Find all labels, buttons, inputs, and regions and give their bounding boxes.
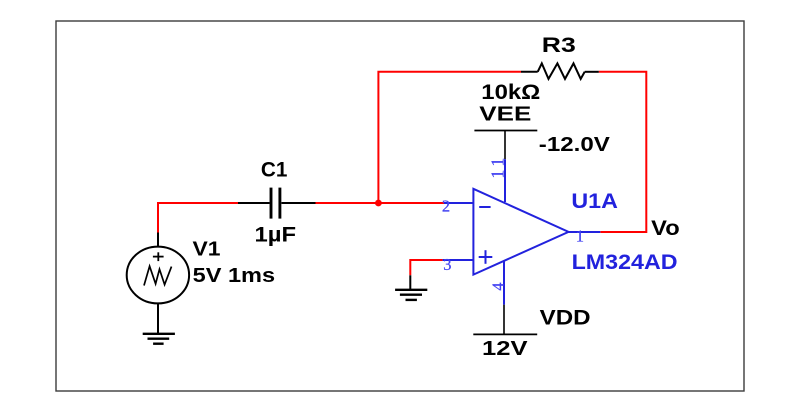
R3 value 10kΩ — [481, 81, 540, 104]
U1A label — [571, 190, 618, 213]
wire — [378, 72, 521, 203]
svg-text:U1A: U1A — [571, 190, 618, 213]
svg-text:Vo: Vo — [651, 217, 680, 240]
voltage source V1 — [127, 233, 189, 334]
wire — [316, 202, 445, 204]
svg-text:10kΩ: 10kΩ — [481, 81, 540, 104]
V1 value 5V 1ms — [193, 265, 276, 287]
svg-text:3: 3 — [443, 255, 451, 274]
C1 value 1µF — [255, 223, 297, 246]
V1 label — [193, 239, 221, 261]
capacitor C1 — [238, 188, 316, 219]
svg-text:2: 2 — [442, 197, 450, 216]
VDD label — [540, 307, 591, 330]
svg-text:V1: V1 — [193, 239, 221, 261]
U1A part LM324AD — [572, 251, 678, 274]
svg-text:LM324AD: LM324AD — [572, 251, 678, 274]
wire — [599, 72, 647, 232]
pin 4 — [489, 262, 508, 305]
ground — [143, 334, 175, 344]
junction — [375, 200, 382, 207]
pin 1 — [569, 226, 601, 245]
svg-text:4: 4 — [489, 283, 508, 291]
wire — [410, 260, 442, 275]
pin 11 — [487, 154, 507, 202]
svg-text:VDD: VDD — [540, 307, 591, 330]
svg-text:R3: R3 — [542, 34, 576, 57]
VEE label — [479, 104, 531, 126]
resistor R3 — [521, 63, 599, 79]
svg-text:VEE: VEE — [479, 104, 531, 126]
svg-text:5V 1ms: 5V 1ms — [193, 265, 276, 287]
VEE value -12.0V — [539, 134, 611, 156]
svg-text:-12.0V: -12.0V — [539, 134, 611, 156]
svg-text:C1: C1 — [261, 159, 288, 182]
R3 label — [542, 34, 576, 57]
op-amp U1A — [473, 189, 568, 275]
svg-text:1: 1 — [576, 226, 584, 245]
C1 label — [261, 159, 288, 182]
VDD power symbol — [473, 305, 537, 335]
wire — [158, 203, 238, 233]
pin 3 — [443, 255, 474, 274]
svg-text:11: 11 — [487, 154, 507, 179]
VDD value 12V — [482, 338, 528, 360]
ground — [395, 275, 427, 300]
VEE power symbol — [474, 131, 537, 160]
node Vo — [651, 217, 680, 240]
svg-text:12V: 12V — [482, 338, 528, 360]
pin 2 — [442, 197, 474, 216]
svg-text:1µF: 1µF — [255, 223, 297, 246]
